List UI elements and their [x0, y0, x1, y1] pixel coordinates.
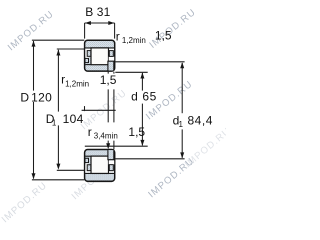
extension line d bottom — [85, 145, 148, 147]
outer ring raceway line bottom — [85, 172, 114, 174]
left gap 1 bottom — [85, 171, 90, 173]
extension line D1 top — [57, 48, 84, 50]
svg-text:1,5: 1,5 — [155, 29, 172, 43]
left gap 1 — [85, 49, 90, 51]
svg-text:104: 104 — [63, 112, 84, 126]
arrow d1 down — [180, 152, 184, 158]
svg-text:65: 65 — [142, 89, 156, 103]
left inner block — [85, 58, 89, 62]
extension line d1 top — [115, 61, 184, 63]
dimension line B — [85, 22, 115, 24]
svg-text:1: 1 — [179, 120, 184, 129]
left gap 2 bottom — [85, 163, 88, 165]
watermark IMPOD.RU mid-right — [144, 79, 195, 123]
svg-text:84,4: 84,4 — [187, 113, 213, 127]
extension line d1 bottom — [115, 158, 184, 160]
extension line D bottom — [32, 179, 84, 181]
svg-text:d: d — [131, 89, 138, 103]
watermark IMPOD.RU top-right — [147, 7, 198, 51]
svg-text:1,5: 1,5 — [100, 73, 117, 87]
svg-text:1: 1 — [52, 118, 57, 127]
right gap 1 — [109, 49, 114, 51]
svg-text:120: 120 — [31, 90, 52, 104]
extension line face B segments — [113, 72, 115, 150]
inner ring raceway line left — [85, 64, 91, 66]
svg-text:3,4min: 3,4min — [94, 132, 118, 141]
roller — [91, 48, 109, 65]
dimension line D upper — [33, 41, 35, 91]
dimension line D lower — [33, 102, 35, 179]
dimension line d lower — [141, 104, 143, 146]
bearing cross-section bottom (mirrored) — [85, 149, 115, 181]
dimension line d1 upper — [181, 63, 183, 113]
left gap 2 — [85, 56, 88, 58]
svg-text:1,2min: 1,2min — [122, 36, 146, 45]
extension line B left — [84, 23, 86, 39]
right gap 2 bottom — [109, 160, 115, 164]
dimension line d upper — [141, 73, 143, 91]
arrow face A down — [106, 143, 110, 149]
right gap 1 bottom — [109, 171, 114, 173]
outer ring outline top — [85, 40, 115, 71]
svg-text:1,2min: 1,2min — [65, 79, 89, 88]
extension line D top — [32, 39, 84, 41]
svg-text:r: r — [88, 125, 92, 139]
arrow B right — [108, 21, 114, 25]
left strip — [85, 49, 87, 57]
extension line B right — [114, 23, 116, 39]
svg-text:r: r — [116, 30, 120, 44]
watermark IMPOD.RU bottom-center — [70, 156, 119, 202]
arrow B left — [85, 21, 91, 25]
svg-text:1,5: 1,5 — [128, 125, 145, 139]
arrow d up — [140, 73, 144, 79]
left cage block bottom — [87, 165, 91, 171]
left cage block — [87, 51, 91, 57]
svg-text:31: 31 — [97, 5, 111, 19]
outer ring raceway line — [85, 47, 114, 49]
inner ring raceway line left bottom — [85, 155, 91, 157]
arrow d1 up — [180, 62, 184, 68]
inner ring flange right — [108, 61, 114, 70]
right gap 2 — [109, 57, 115, 61]
roller bottom — [91, 156, 109, 173]
abutment indicator line — [82, 109, 116, 111]
watermark IMPOD.RU bottom-right — [146, 156, 196, 201]
svg-text:B: B — [85, 5, 93, 19]
abutment stub — [84, 106, 86, 111]
dimension line d1 lower — [181, 129, 183, 157]
dimension line D1 lower — [57, 125, 59, 168]
right cage block — [109, 51, 113, 57]
watermark IMPOD.RU top-left — [6, 9, 56, 54]
left strip bottom — [85, 165, 87, 173]
bearing cross-section top — [85, 40, 115, 71]
dimension line D1 upper — [57, 50, 59, 112]
arrow d down — [140, 140, 144, 146]
extension line D1 bottom — [57, 169, 84, 171]
watermark IMPOD.RU right-edge partial — [183, 126, 233, 171]
watermark IMPOD.RU mid-center faint — [79, 88, 129, 133]
watermark IMPOD.RU bottom-left — [0, 180, 50, 225]
arrow D1 down — [56, 164, 60, 170]
arrow D1 up — [56, 50, 60, 56]
arrow D down — [32, 173, 36, 179]
arrow D up — [32, 41, 36, 47]
extension line d top — [115, 71, 147, 73]
right cage block bottom — [109, 165, 113, 171]
svg-text:D: D — [20, 90, 29, 104]
outer ring outline bottom — [85, 149, 115, 181]
extension line face A segments — [107, 72, 109, 147]
left inner block bottom — [85, 158, 89, 162]
inner ring flange right bottom — [108, 150, 114, 160]
